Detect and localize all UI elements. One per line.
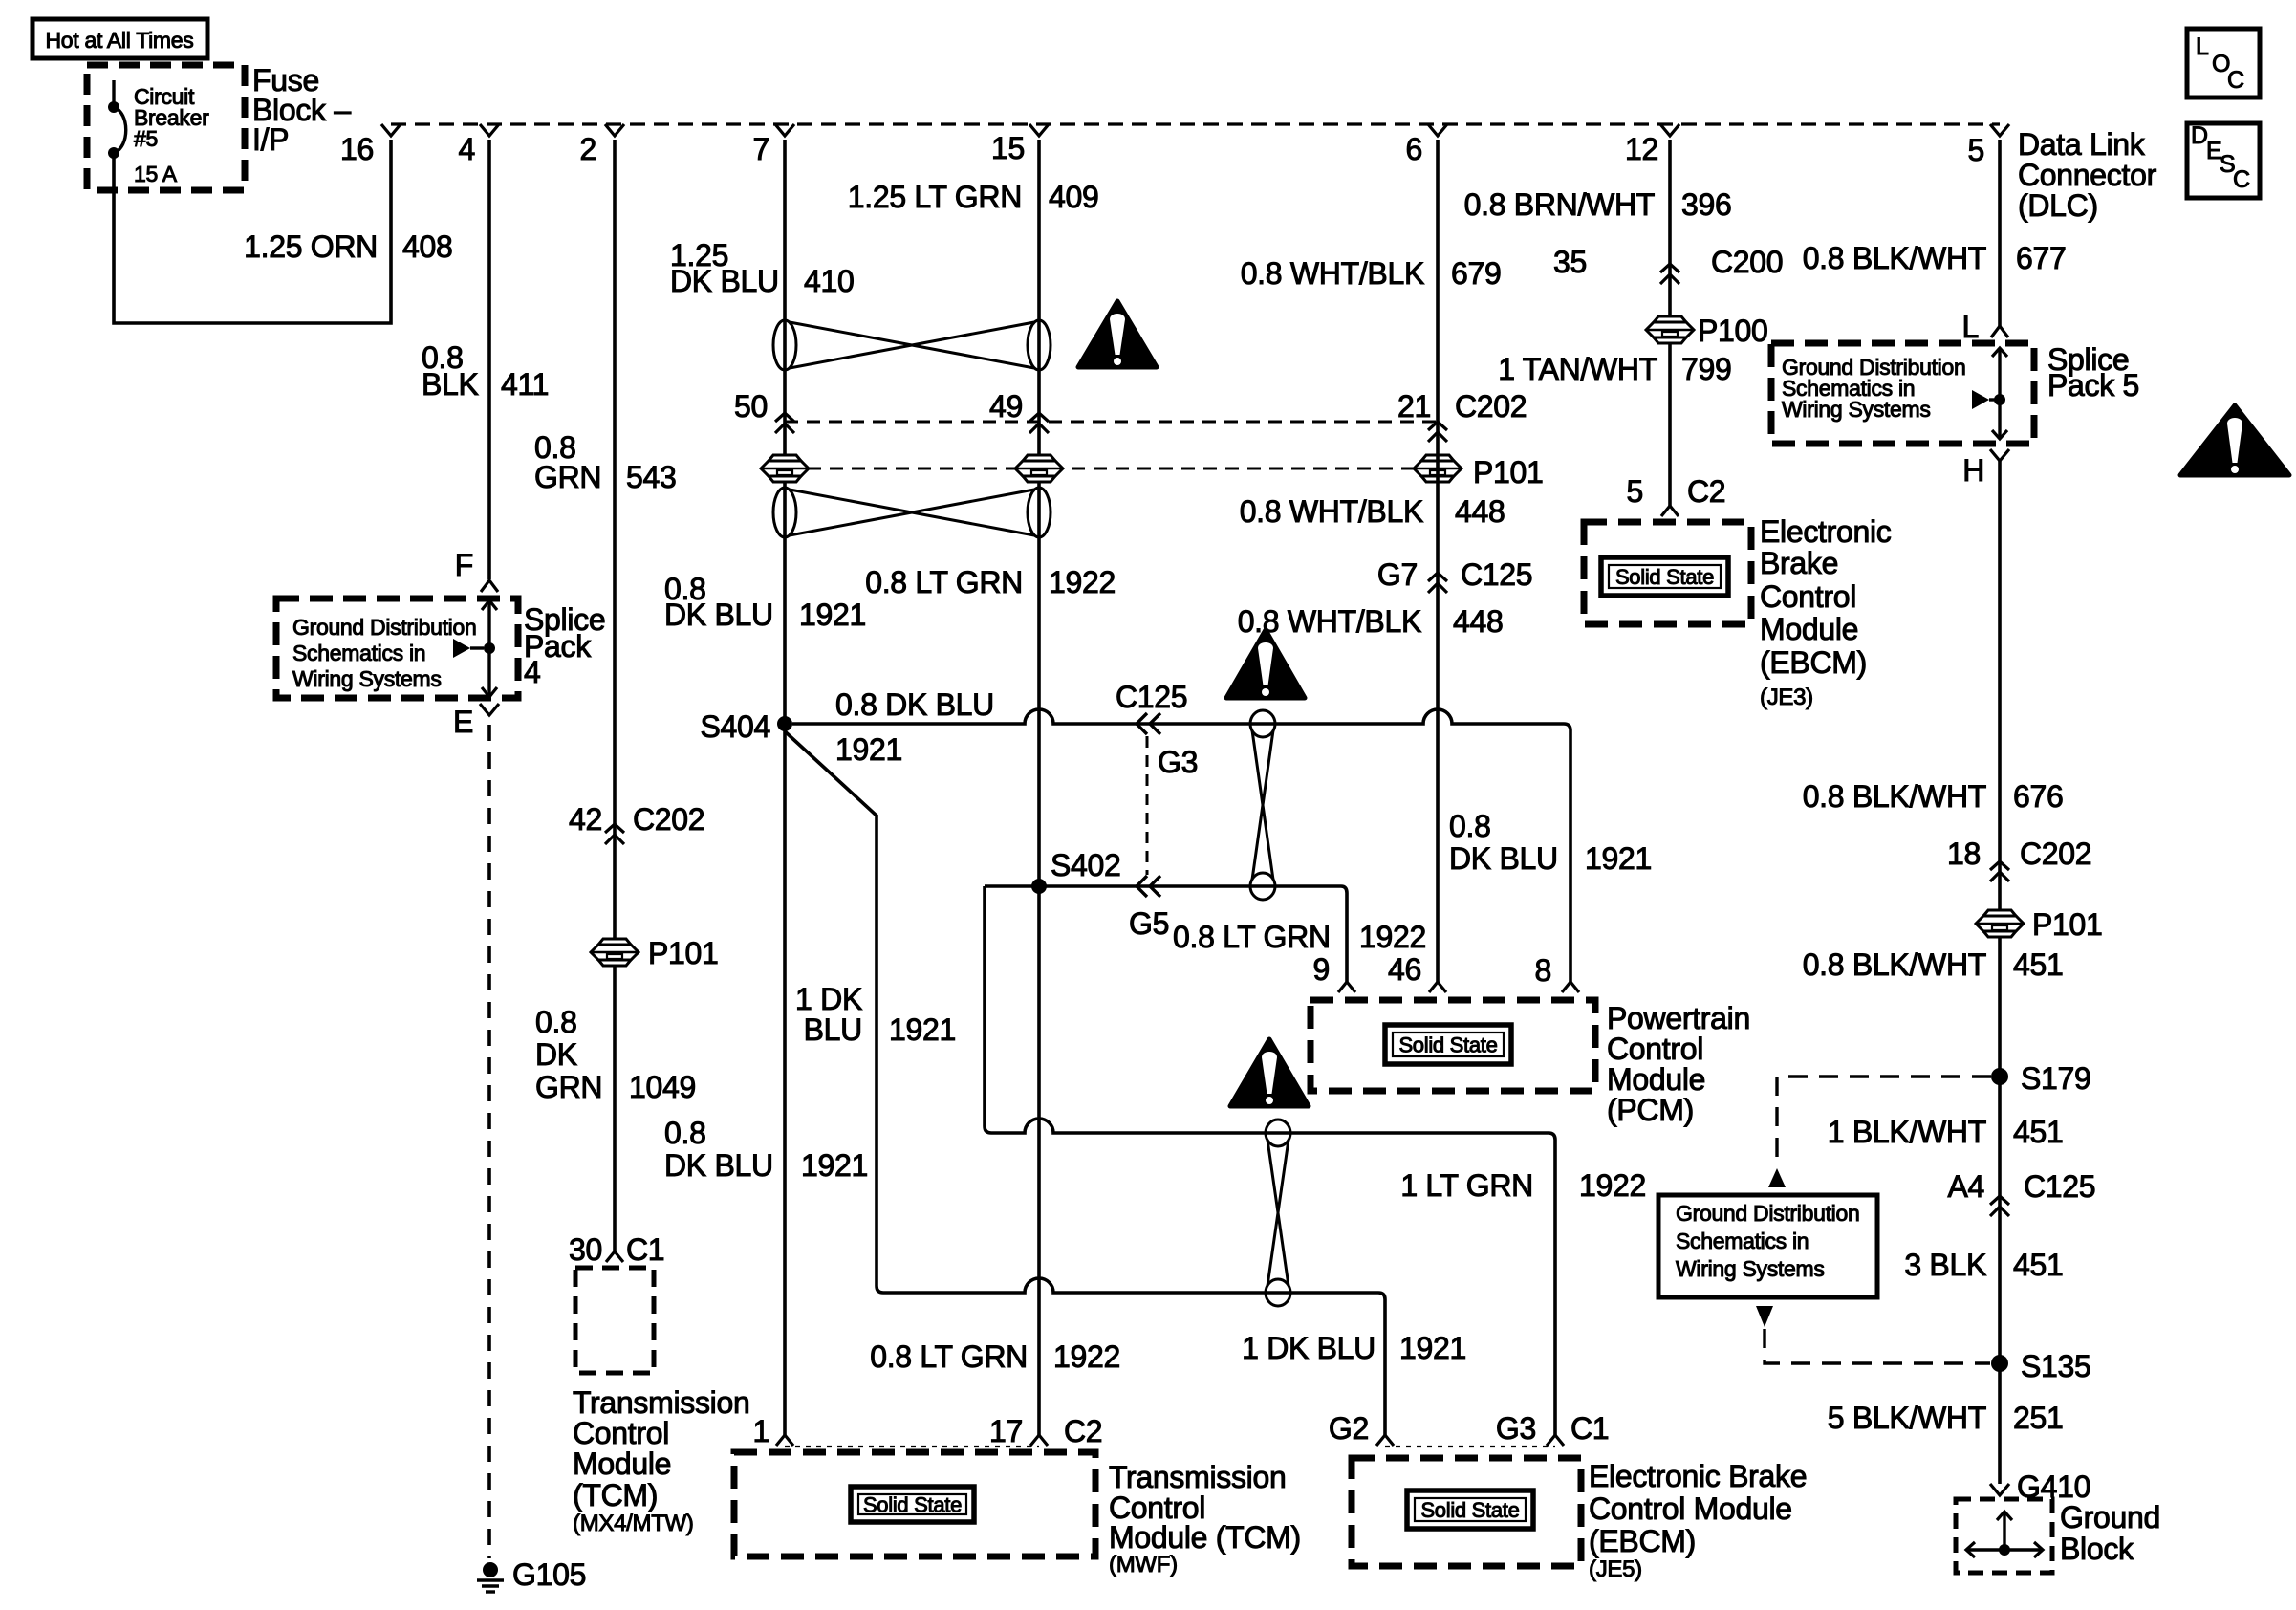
svg-text:(MWF): (MWF) [1109,1552,1178,1577]
svg-text:35: 35 [1553,245,1587,279]
svg-text:1922: 1922 [1053,1339,1120,1374]
svg-text:0.8 BLK/WHT: 0.8 BLK/WHT [1803,241,1986,275]
ground block dashed box [1956,1499,2052,1573]
svg-text:Ground Distribution: Ground Distribution [1676,1201,1859,1226]
svg-text:G2: G2 [1329,1411,1369,1446]
grommet P101 on wire 410 [761,455,809,482]
svg-text:Control: Control [573,1416,669,1450]
svg-text:Block: Block [2060,1532,2134,1566]
ground distribution note box (solid) [1658,1195,1877,1297]
splice S402 [1031,879,1047,894]
svg-text:451: 451 [2013,1248,2064,1282]
connector C202 dashed line [785,421,1438,424]
splice pack 5 splice symbol [1998,348,2001,439]
svg-text:1.25 LT GRN: 1.25 LT GRN [848,180,1022,214]
svg-text:0.8 BLK/WHT: 0.8 BLK/WHT [1803,779,1986,814]
splice pack 4 dashed box [276,598,518,698]
svg-text:7: 7 [753,132,770,166]
svg-text:Wiring Systems: Wiring Systems [292,666,442,691]
ground block symbol [2003,1512,2005,1550]
wire 408 1.25 ORN from breaker to pin 16 [114,140,391,323]
svg-text:409: 409 [1049,180,1099,214]
svg-text:0.8 WHT/BLK: 0.8 WHT/BLK [1241,256,1424,291]
svg-text:L: L [2196,33,2209,60]
wire 396 0.8 BRN/WHT pin 12 to EBCM JE3 [1668,140,1672,506]
svg-text:A4: A4 [1947,1169,1984,1204]
fuse block pin 15 [1029,124,1049,136]
svg-text:G3: G3 [1496,1411,1536,1446]
svg-text:DK BLU: DK BLU [664,1148,773,1183]
wire 676/451 BLK/WHT splice pack 5 to ground block [1998,461,2002,1484]
svg-text:Control Module: Control Module [1589,1491,1792,1526]
svg-text:8: 8 [1535,953,1552,988]
fuse block pin 7 [775,124,794,136]
svg-text:(EBCM): (EBCM) [1760,645,1867,680]
svg-text:G7: G7 [1377,557,1418,592]
svg-text:C202: C202 [633,802,704,837]
EBCM JE3 Solid State box [1601,557,1728,596]
dashed link note to S135 [1756,1306,1773,1327]
svg-text:Solid State: Solid State [1615,565,1714,589]
twisted pair vertical wires 1922/1921 lower [1266,1120,1290,1306]
svg-text:S135: S135 [2021,1349,2091,1383]
svg-text:F: F [455,548,473,582]
svg-text:1921: 1921 [1399,1331,1466,1365]
svg-text:L: L [1962,310,1980,344]
svg-text:C202: C202 [1455,389,1527,424]
svg-text:0.8 LT GRN: 0.8 LT GRN [865,565,1023,599]
LOC legend box [2187,29,2260,98]
svg-text:C125: C125 [1461,557,1532,592]
svg-text:P101: P101 [1473,455,1544,490]
svg-text:Transmission: Transmission [573,1385,749,1420]
wire 677 0.8 BLK/WHT DLC pin 5 to splice pack 5 [1998,140,2002,326]
svg-text:P100: P100 [1698,314,1768,348]
svg-text:GRN: GRN [534,460,601,494]
svg-text:I/P: I/P [252,122,289,157]
svg-text:DK BLU: DK BLU [1449,841,1558,876]
splice S179 [1991,1068,2008,1085]
ground G105 [483,1562,498,1577]
wire 679 0.8 WHT/BLK pin 6 to PCM pin 46 [1436,140,1440,982]
svg-text:30: 30 [569,1232,602,1267]
svg-text:BLU: BLU [804,1012,862,1047]
svg-text:451: 451 [2013,1115,2064,1149]
wire 1922 S402 branch to EBCM G3 [985,886,1555,1435]
grommet P100 [1646,316,1694,343]
twisted pair vertical wires G3/G5 [1250,710,1275,900]
svg-text:Control: Control [1760,579,1856,614]
svg-text:C1: C1 [1570,1411,1609,1446]
svg-text:Pack 5: Pack 5 [2047,368,2139,402]
svg-text:9: 9 [1313,952,1331,987]
svg-text:Module: Module [1607,1062,1705,1097]
wire 411 0.8 BLK pin 4 to splice pack 4 [487,140,491,579]
grommet P101 on wire 451 [1976,910,2024,937]
svg-text:Transmission: Transmission [1109,1460,1286,1494]
circuit breaker symbol [112,80,115,105]
svg-text:Wiring Systems: Wiring Systems [1782,397,1931,422]
svg-text:Electronic: Electronic [1760,514,1892,549]
dashed wire to G105 [487,725,491,1558]
C125 dashed connector line [1146,736,1149,875]
PCM Solid State box [1385,1025,1511,1064]
DLC pin 5 [1990,124,2009,136]
svg-text:(DLC): (DLC) [2018,188,2098,223]
svg-text:(PCM): (PCM) [1607,1093,1694,1127]
svg-text:Solid State: Solid State [1398,1033,1497,1057]
twisted pair symbol lower wires 1921/1922 [773,488,1051,537]
svg-text:448: 448 [1453,604,1504,639]
warning triangle 3 [1230,1039,1309,1106]
svg-text:1: 1 [753,1414,770,1448]
svg-text:1921: 1921 [889,1012,956,1047]
svg-text:(JE5): (JE5) [1589,1556,1642,1582]
svg-text:17: 17 [989,1414,1023,1448]
warning triangle 4 [2180,405,2289,475]
svg-text:(TCM): (TCM) [573,1478,658,1512]
svg-text:50: 50 [734,389,768,424]
svg-text:451: 451 [2013,947,2064,982]
svg-text:C: C [2233,166,2250,193]
EBCM JE3 dashed box [1584,522,1751,624]
svg-text:H: H [1962,453,1984,488]
svg-text:2: 2 [580,132,597,166]
svg-text:GRN: GRN [535,1070,602,1104]
fuse block pin 2 [605,124,624,136]
svg-text:679: 679 [1451,256,1502,291]
svg-text:Solid State: Solid State [1420,1498,1519,1522]
svg-text:(JE3): (JE3) [1760,685,1813,710]
svg-text:0.8 BRN/WHT: 0.8 BRN/WHT [1464,187,1655,222]
svg-text:18: 18 [1947,837,1981,871]
TCM Solid State box [851,1487,974,1522]
fuse block pin 12 [1660,124,1679,136]
wire 409/1922 LT GRN pin 15 down to TCM pin 17 [1037,140,1041,1435]
svg-text:Ground Distribution: Ground Distribution [292,615,476,640]
splice S135 [1991,1355,2008,1372]
svg-text:4: 4 [459,132,476,166]
svg-text:P101: P101 [648,936,719,970]
svg-text:1 BLK/WHT: 1 BLK/WHT [1828,1115,1986,1149]
wire 1921 S404 branch to EBCM G2 [785,731,1385,1435]
svg-text:396: 396 [1681,187,1732,222]
svg-text:676: 676 [2013,779,2064,814]
twisted pair symbol wires 410/409 [773,320,1051,370]
svg-text:P101: P101 [2032,907,2103,942]
svg-text:0.8 BLK/WHT: 0.8 BLK/WHT [1803,947,1986,982]
svg-text:410: 410 [804,264,855,298]
svg-text:Powertrain: Powertrain [1607,1001,1750,1035]
svg-text:12: 12 [1625,132,1658,166]
svg-text:21: 21 [1397,389,1431,424]
svg-text:Module: Module [573,1447,671,1481]
DESC legend box [2187,123,2260,198]
svg-text:46: 46 [1388,952,1421,987]
wire 1922 S402 to PCM pin 9 [985,886,1347,982]
svg-text:#5: #5 [134,126,158,151]
grommet P101 on wire 679 [1414,455,1462,482]
svg-text:Electronic Brake: Electronic Brake [1589,1459,1807,1493]
svg-text:DK BLU: DK BLU [670,264,779,298]
svg-text:Solid State: Solid State [863,1493,962,1517]
EBCM JE5 Solid State box [1407,1490,1533,1529]
EBCM JE5 pin dotted line [1385,1446,1555,1447]
PCM dashed box [1310,1000,1595,1091]
svg-text:799: 799 [1681,352,1732,386]
svg-text:411: 411 [501,367,549,402]
Hot at All Times box [32,19,207,58]
svg-text:1922: 1922 [1359,920,1426,954]
svg-text:Control: Control [1607,1032,1703,1066]
svg-text:1049: 1049 [629,1070,696,1104]
fuse block bus (dashed) [391,122,2000,125]
svg-text:251: 251 [2013,1401,2064,1435]
wire 543 0.8 GRN pin 2 to TCM C1 [613,140,617,1251]
svg-text:(EBCM): (EBCM) [1589,1524,1696,1558]
svg-text:5: 5 [1968,133,1985,167]
svg-text:G105: G105 [512,1557,586,1592]
svg-text:Module: Module [1760,612,1858,646]
svg-text:543: 543 [626,460,677,494]
wire 1921 S404 to PCM pin 8 [792,709,1570,982]
svg-text:Connector: Connector [2018,158,2157,192]
svg-text:1921: 1921 [799,598,866,632]
svg-text:1 DK: 1 DK [795,982,862,1016]
svg-text:0.8 LT GRN: 0.8 LT GRN [1173,920,1331,954]
svg-text:E: E [453,705,473,739]
svg-text:6: 6 [1406,132,1423,166]
splice pack 4 splice symbol [487,600,490,697]
svg-text:G5: G5 [1129,906,1169,941]
fuse block pin 16 [381,124,401,136]
svg-text:S404: S404 [700,709,770,744]
svg-text:1.25 ORN: 1.25 ORN [244,229,378,264]
splice S404 [777,716,792,731]
svg-text:1 TAN/WHT: 1 TAN/WHT [1498,352,1657,386]
svg-text:4: 4 [524,655,541,689]
svg-text:Data Link: Data Link [2018,127,2146,162]
svg-text:1922: 1922 [1049,565,1116,599]
svg-text:C200: C200 [1711,245,1783,279]
svg-text:(MX4/MTW): (MX4/MTW) [573,1511,694,1536]
svg-text:408: 408 [402,229,453,264]
splice pack 5 dashed box [1771,343,2034,444]
svg-text:C125: C125 [1116,680,1187,714]
svg-text:C2: C2 [1687,474,1725,509]
svg-text:Schematics in: Schematics in [1676,1229,1809,1253]
svg-text:42: 42 [569,802,602,837]
svg-text:G3: G3 [1158,745,1198,779]
EBCM JE5 dashed box [1352,1458,1581,1566]
svg-text:BLK: BLK [422,367,479,402]
svg-text:DK: DK [535,1037,577,1072]
svg-text:C2: C2 [1064,1414,1102,1448]
svg-text:1 DK BLU: 1 DK BLU [1242,1331,1375,1365]
svg-text:S402: S402 [1051,848,1121,882]
dashed link S179 to ground distribution note [1777,1077,1991,1164]
TCM (MX4/MTW) dashed box [575,1268,654,1373]
svg-text:DK BLU: DK BLU [664,598,773,632]
fuse block pin 6 [1428,124,1447,136]
svg-text:1922: 1922 [1579,1168,1646,1203]
svg-text:C1: C1 [626,1232,664,1267]
warning triangle 1 [1078,301,1157,367]
svg-text:0.8: 0.8 [1449,809,1491,843]
svg-text:Hot at All Times: Hot at All Times [46,28,194,53]
svg-text:0.8: 0.8 [535,1005,577,1039]
TCM dashed box [734,1452,1095,1556]
svg-text:Wiring Systems: Wiring Systems [1676,1256,1825,1281]
svg-text:Schematics in: Schematics in [292,641,425,665]
svg-text:C125: C125 [2024,1169,2095,1204]
svg-text:Brake: Brake [1760,546,1838,580]
svg-text:S179: S179 [2021,1061,2091,1096]
svg-text:5: 5 [1627,474,1644,509]
svg-text:0.8: 0.8 [664,1116,706,1150]
grommet P101 on wire 543 [591,939,639,966]
circuit breaker #5 dashed box [87,65,245,190]
grommet P101 on wire 409 [1015,455,1063,482]
svg-text:3 BLK: 3 BLK [1904,1248,1986,1282]
warning triangle 2 [1226,630,1305,698]
svg-text:Module (TCM): Module (TCM) [1109,1520,1301,1555]
svg-text:1 LT GRN: 1 LT GRN [1400,1168,1533,1203]
wire 410/1921 DK BLU pin 7 down to TCM pin 1 [783,140,787,1435]
grommet P101 dashed line [764,468,1438,470]
svg-text:15 A: 15 A [134,162,178,186]
svg-text:1921: 1921 [801,1148,868,1183]
svg-text:49: 49 [989,389,1023,424]
svg-text:0.8 LT GRN: 0.8 LT GRN [870,1339,1028,1374]
svg-text:677: 677 [2016,241,2067,275]
fuse block pin 4 [480,124,499,136]
svg-text:C: C [2227,67,2244,94]
svg-text:15: 15 [991,131,1025,165]
svg-text:0.8 WHT/BLK: 0.8 WHT/BLK [1240,494,1423,529]
svg-text:C202: C202 [2020,837,2091,871]
svg-text:0.8 DK BLU: 0.8 DK BLU [835,687,994,722]
svg-text:448: 448 [1455,494,1505,529]
svg-text:1921: 1921 [1585,841,1652,876]
TCM pin dotted line [785,1446,1039,1447]
svg-text:16: 16 [340,132,374,166]
svg-text:Ground: Ground [2060,1500,2160,1534]
svg-text:1921: 1921 [835,732,902,767]
svg-text:5 BLK/WHT: 5 BLK/WHT [1828,1401,1986,1435]
